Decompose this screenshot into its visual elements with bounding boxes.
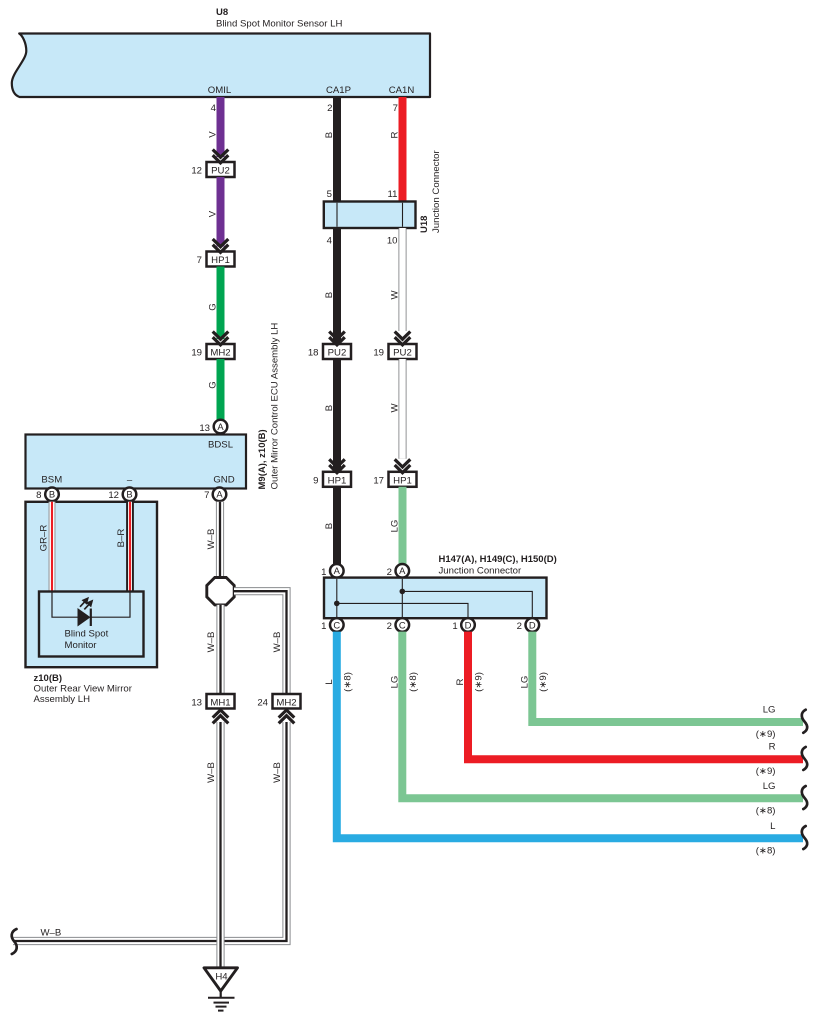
svg-text:D: D — [465, 619, 472, 630]
svg-text:W–B: W–B — [206, 529, 217, 550]
pin 12 (B) of M9 — [108, 488, 136, 502]
svg-text:B: B — [324, 523, 335, 529]
svg-text:W: W — [390, 290, 401, 300]
svg-text:U8: U8 — [216, 7, 228, 18]
svg-text:MH1: MH1 — [210, 698, 230, 709]
ground H4 — [204, 968, 238, 1011]
svg-text:1: 1 — [321, 567, 326, 578]
svg-text:Outer Rear View Mirror: Outer Rear View Mirror — [34, 684, 133, 695]
label M9(A), z10(B) Outer Mirror Control ECU Assembly LH (vertical) — [257, 323, 281, 490]
svg-text:12: 12 — [108, 490, 119, 501]
svg-text:Monitor: Monitor — [65, 640, 98, 651]
arrow into 9 HP1 — [329, 459, 345, 472]
wire B (black) U18 to PU2 — [333, 228, 341, 344]
svg-text:2: 2 — [387, 567, 392, 578]
svg-text:R: R — [455, 678, 466, 685]
connector 19 MH2 — [191, 344, 234, 359]
svg-text:7: 7 — [393, 103, 398, 114]
wire label LG (*9) at right edge — [756, 705, 776, 741]
wire LG H147 2C to off-page right — [402, 632, 803, 799]
arrow up below MH1 — [213, 710, 229, 723]
wire L (blue) H147 1C to off-page right — [337, 632, 803, 839]
wire label R (*9) at right edge — [756, 742, 776, 778]
svg-text:13: 13 — [199, 423, 210, 434]
svg-text:G: G — [208, 303, 219, 310]
svg-text:MH2: MH2 — [210, 348, 230, 359]
svg-text:LG: LG — [389, 676, 400, 689]
wire GR-R (gray with red stripe) pin 8 to mirror unit — [49, 502, 56, 592]
component M9(A) z10(B) Outer Mirror Control ECU Assembly LH — [26, 435, 247, 489]
svg-text:–: – — [127, 475, 133, 486]
wire R (red) U8 pin 7 to U18 — [399, 97, 407, 202]
svg-text:z10(B): z10(B) — [34, 673, 63, 684]
svg-text:(∗8): (∗8) — [343, 672, 354, 692]
label U18 Junction Connector (vertical) — [419, 150, 442, 233]
svg-text:(∗8): (∗8) — [756, 845, 776, 856]
connector 7 HP1 — [197, 252, 235, 267]
svg-text:CA1P: CA1P — [326, 85, 351, 96]
arrow into 19 PU2 — [395, 332, 411, 345]
label Blind Spot Monitor — [65, 629, 109, 652]
svg-text:L: L — [324, 679, 335, 685]
svg-text:LG: LG — [519, 676, 530, 689]
svg-text:D: D — [529, 619, 536, 630]
svg-text:11: 11 — [388, 189, 398, 200]
blind spot monitor unit box — [39, 592, 144, 657]
svg-text:5: 5 — [327, 189, 332, 200]
svg-text:W–B: W–B — [206, 762, 217, 783]
svg-text:W–B: W–B — [206, 632, 217, 653]
wire W (white) U18 to PU2 — [399, 228, 407, 331]
svg-text:19: 19 — [373, 348, 384, 359]
wire label LG (*8) at right edge — [756, 781, 776, 817]
svg-text:W–B: W–B — [41, 928, 62, 939]
svg-text:A: A — [217, 421, 224, 432]
connector 13 MH1 — [191, 694, 234, 709]
svg-text:GR–R: GR–R — [39, 525, 50, 552]
arrow up below MH2 — [279, 710, 295, 723]
svg-text:LG: LG — [763, 781, 776, 792]
pin 1 (D) of H147 — [452, 618, 474, 632]
svg-text:OMIL: OMIL — [208, 85, 232, 96]
wire B-R (black with red stripe) pin 12 to mirror unit — [126, 502, 134, 592]
arrow into HP1 — [213, 239, 229, 252]
connector 12 PU2 — [191, 162, 234, 177]
svg-text:1: 1 — [321, 621, 326, 632]
svg-text:9: 9 — [313, 475, 318, 486]
arrow into 18 PU2 — [329, 332, 345, 345]
svg-text:MH2: MH2 — [276, 698, 296, 709]
connector 19 PU2 — [373, 344, 416, 359]
pin 7 (A) of M9 — [204, 488, 226, 502]
wire V (violet) U8 pin 4 to PU2 — [217, 97, 225, 157]
wire W-B octagon to MH1 — [216, 605, 224, 694]
svg-text:W–B: W–B — [272, 632, 283, 653]
svg-text:13: 13 — [191, 698, 202, 709]
svg-text:1: 1 — [452, 621, 457, 632]
svg-text:(∗8): (∗8) — [756, 805, 776, 816]
svg-text:CA1N: CA1N — [389, 85, 415, 96]
svg-text:4: 4 — [211, 103, 217, 114]
svg-text:PU2: PU2 — [393, 348, 412, 359]
svg-text:10: 10 — [387, 236, 398, 247]
svg-text:BSM: BSM — [41, 475, 62, 486]
svg-text:17: 17 — [373, 475, 384, 486]
arrow into 17 HP1 — [395, 459, 411, 472]
wire W-B from off-page left to MH2 — [13, 722, 287, 941]
svg-text:LG: LG — [763, 705, 776, 716]
svg-text:BDSL: BDSL — [208, 440, 234, 451]
svg-text:HP1: HP1 — [328, 475, 347, 486]
pin 8 (B) of M9 — [36, 488, 59, 502]
svg-text:B: B — [49, 489, 55, 500]
wire W-B octagon to MH2 (right branch) — [234, 591, 287, 694]
svg-text:M9(A), z10(B): M9(A), z10(B) — [257, 429, 268, 489]
svg-text:C: C — [399, 619, 406, 630]
svg-text:B: B — [324, 132, 335, 138]
junction connector H147 box — [324, 578, 547, 619]
pin 2 (C) of H147 — [387, 618, 409, 632]
SECTION: left column — [26, 97, 301, 783]
wire W (white) PU2 to HP1 — [399, 359, 407, 459]
wire B (black) HP1 to H147 pin 1A — [333, 487, 341, 564]
svg-text:H147(A), H149(C), H150(D): H147(A), H149(C), H150(D) — [439, 554, 557, 565]
label H147(A), H149(C), H150(D) Junction Connector — [439, 554, 557, 577]
svg-text:B: B — [126, 489, 132, 500]
svg-text:Junction Connector: Junction Connector — [439, 566, 522, 577]
arrow into MH2 — [213, 332, 229, 345]
svg-text:Blind Spot: Blind Spot — [65, 629, 109, 640]
svg-text:19: 19 — [191, 348, 202, 359]
wire G (green) HP1 to MH2 — [217, 267, 225, 340]
pin 1 (C) of H147 — [321, 618, 343, 632]
svg-text:V: V — [208, 210, 219, 217]
wire LG (light green) HP1 to H147 pin 2A — [399, 487, 407, 564]
continuation mark LG (*9) — [802, 710, 807, 733]
svg-text:2: 2 — [387, 621, 392, 632]
svg-text:18: 18 — [308, 348, 319, 359]
pin 13 (A) of M9 — [199, 420, 227, 434]
svg-text:12: 12 — [191, 166, 202, 177]
svg-text:Outer Mirror Control ECU Assem: Outer Mirror Control ECU Assembly LH — [270, 323, 281, 490]
svg-text:LG: LG — [390, 520, 401, 533]
svg-text:24: 24 — [257, 698, 268, 709]
svg-text:(∗8): (∗8) — [408, 672, 419, 692]
svg-text:C: C — [333, 619, 340, 630]
internal wire to LED — [52, 592, 130, 618]
svg-text:4: 4 — [327, 236, 333, 247]
junction octagon — [207, 578, 234, 605]
wire B (black) U8 pin 2 to U18 — [333, 97, 341, 202]
label z10(B) Outer Rear View Mirror Assembly LH — [34, 673, 133, 705]
pin 2 (A) of H147 — [387, 564, 409, 578]
svg-text:8: 8 — [36, 490, 41, 501]
continuation mark (left page edge) — [12, 929, 17, 954]
svg-text:Junction Connector: Junction Connector — [431, 150, 442, 233]
svg-text:A: A — [399, 565, 406, 576]
svg-text:(∗9): (∗9) — [756, 729, 776, 740]
component U8 Blind Spot Monitor Sensor LH (box with torn left edge) — [12, 34, 430, 98]
connector 9 HP1 — [313, 472, 351, 487]
svg-text:R: R — [769, 742, 776, 753]
connector 17 HP1 — [373, 472, 416, 487]
svg-text:W–B: W–B — [272, 762, 283, 783]
svg-text:HP1: HP1 — [211, 255, 230, 266]
wire B (black) PU2 to HP1 — [333, 359, 341, 472]
continuation mark L (*8) — [802, 826, 807, 849]
pin 1 (A) of H147 — [321, 564, 343, 578]
svg-text:W: W — [390, 403, 401, 413]
wire G (green) MH2 to M9 pin 13 — [217, 359, 225, 420]
svg-text:B–R: B–R — [116, 529, 127, 548]
svg-text:(∗9): (∗9) — [756, 766, 776, 777]
svg-text:Assembly LH: Assembly LH — [34, 694, 91, 705]
continuation mark R (*9) — [802, 747, 807, 770]
LED D (Blind Spot Monitor indicator) — [78, 608, 91, 627]
svg-text:V: V — [208, 131, 219, 138]
wire R (red) H147 1D to off-page right — [468, 632, 803, 760]
svg-text:L: L — [770, 821, 776, 832]
wire W-B GND pin 7 to junction octagon — [216, 502, 224, 578]
svg-text:B: B — [324, 405, 335, 411]
SECTION: right columns — [308, 97, 807, 856]
svg-text:PU2: PU2 — [328, 348, 347, 359]
svg-text:A: A — [334, 565, 341, 576]
svg-text:U18: U18 — [419, 216, 430, 233]
connector 18 PU2 — [308, 344, 351, 359]
svg-text:GND: GND — [213, 475, 234, 486]
svg-text:R: R — [390, 131, 401, 138]
svg-text:HP1: HP1 — [393, 475, 412, 486]
svg-text:A: A — [216, 489, 223, 500]
svg-text:B: B — [324, 292, 335, 298]
connector 24 MH2 — [257, 694, 300, 709]
wire W-B MH1 down to ground H4 — [216, 722, 224, 968]
svg-text:7: 7 — [197, 255, 202, 266]
junction connector U18 box — [324, 202, 416, 229]
svg-text:(∗9): (∗9) — [538, 672, 549, 692]
svg-text:2: 2 — [517, 621, 522, 632]
SECTION: bottom ground — [12, 710, 295, 1011]
continuation mark LG (*8) — [802, 786, 807, 809]
svg-text:PU2: PU2 — [211, 166, 230, 177]
pin 2 (D) of H147 — [517, 618, 539, 632]
wire LG H147 2D to off-page right — [532, 632, 803, 722]
svg-text:Blind Spot Monitor Sensor LH: Blind Spot Monitor Sensor LH — [216, 19, 342, 30]
label U8 — [216, 7, 342, 30]
svg-text:2: 2 — [327, 103, 332, 114]
svg-text:G: G — [208, 381, 219, 388]
component z10(B) Outer Rear View Mirror Assembly LH (box) — [26, 502, 158, 667]
arrow into PU2 — [213, 150, 229, 163]
wire V (violet) PU2 to HP1 — [217, 177, 225, 247]
wire label L (*8) at right edge — [756, 821, 776, 857]
svg-text:7: 7 — [204, 490, 209, 501]
LED emission arrows — [80, 598, 92, 609]
svg-text:(∗9): (∗9) — [474, 672, 485, 692]
svg-text:H4: H4 — [215, 972, 228, 983]
SECTION: top component U8 — [12, 7, 430, 114]
